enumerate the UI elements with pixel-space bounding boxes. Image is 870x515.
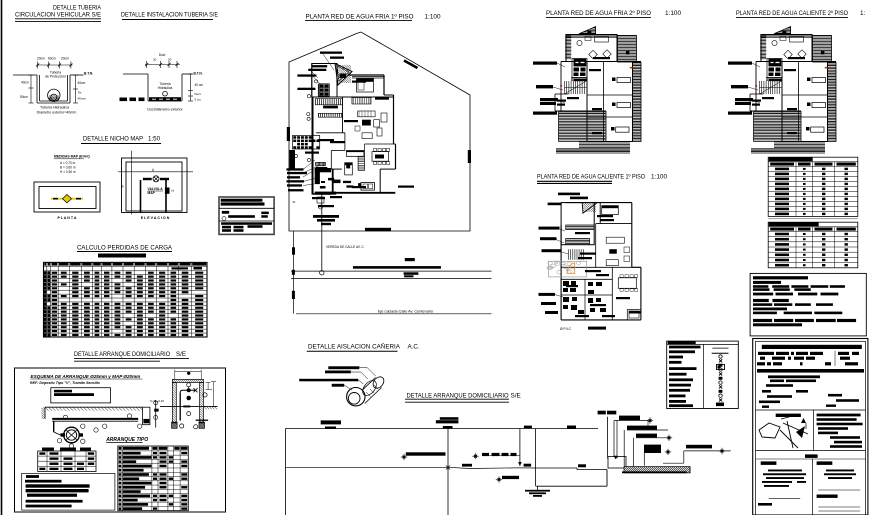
arranque tipo table right bbox=[118, 446, 189, 511]
esquema de arranque title bbox=[30, 374, 143, 385]
svg-text:20cm: 20cm bbox=[37, 57, 45, 61]
nicho MAP planta view rectangles bbox=[34, 182, 100, 212]
main plan callout circles left bbox=[294, 80, 317, 162]
bottom section top line bbox=[286, 428, 599, 430]
nicho MAP elevacion caption bbox=[141, 216, 170, 220]
plan 2 piso caliente - stairs bbox=[760, 81, 782, 94]
trench detail A dimension line with ticks bbox=[36, 62, 72, 69]
caliente 1 piso top labels bbox=[548, 193, 588, 206]
plan 2 piso fria - left stripe band bbox=[565, 35, 571, 59]
esquema valve box at right of pipe bbox=[143, 407, 150, 425]
bottom section survey stars and labels bbox=[401, 452, 519, 482]
svg-text:Duct: Duct bbox=[159, 53, 166, 57]
plan 2 piso caliente - roof triangle bbox=[773, 27, 792, 34]
main plan cell table mid-left bbox=[293, 135, 320, 149]
main plan label bars top area bbox=[297, 52, 344, 91]
svg-text:DETALLE TUBERIA: DETALLE TUBERIA bbox=[53, 5, 102, 12]
trench detail B labels bbox=[147, 72, 203, 112]
svg-text:Tuberia Hidráulica: Tuberia Hidráulica bbox=[40, 106, 69, 110]
svg-text:St: St bbox=[293, 200, 296, 204]
plan 2 piso fria - right side hatch band bbox=[633, 63, 642, 142]
gap row between right tables bbox=[768, 218, 858, 220]
trench detail B black duct fill at bottom bbox=[149, 97, 181, 101]
svg-text:Eje calzada Calle Av. Centenar: Eje calzada Calle Av. Centenario bbox=[378, 310, 433, 314]
svg-text:P L A N T A: P L A N T A bbox=[57, 216, 76, 220]
svg-text:DETALLE AISLACION CAÑERIA: DETALLE AISLACION CAÑERIA bbox=[308, 343, 401, 350]
plan 2 piso fria - red reference dots bbox=[560, 67, 634, 87]
svg-text:60cm: 60cm bbox=[48, 57, 56, 61]
plan 2 piso caliente - right side hatch band bbox=[828, 63, 837, 142]
caliente 1 piso bathroom fixtures bottom bbox=[563, 281, 606, 314]
small note table left of plan bbox=[219, 197, 274, 234]
svg-text:20: 20 bbox=[168, 58, 172, 62]
svg-text:1:100: 1:100 bbox=[651, 174, 667, 181]
esquema water meter circle assembly bbox=[54, 427, 83, 443]
title block map section frame bbox=[756, 410, 866, 451]
caliente 1 piso left labels bbox=[539, 227, 569, 314]
title block header black bar bbox=[762, 345, 862, 349]
trench detail B dimension labels bbox=[153, 53, 172, 62]
esquema vertical riser with circles bbox=[150, 399, 164, 428]
svg-text:A = 0,70 m: A = 0,70 m bbox=[60, 161, 76, 165]
title block lower section bbox=[756, 454, 866, 515]
plan 2 piso caliente - living room furniture bbox=[772, 37, 806, 59]
main plan wall hatch band top bbox=[352, 75, 384, 78]
svg-text:MAP: MAP bbox=[148, 191, 156, 195]
niche wall section right - hatched walls bbox=[172, 379, 205, 428]
street axis line and label bbox=[296, 310, 492, 314]
svg-text:VEREDA DE CALLE AV. C.: VEREDA DE CALLE AV. C. bbox=[326, 245, 365, 249]
svg-text:de Protección: de Protección bbox=[45, 75, 66, 79]
main plan sink counter striped bbox=[316, 162, 328, 168]
plan 2 piso fria - bottom garage hatch bbox=[559, 112, 606, 140]
plan 2 piso fria - stairs bbox=[565, 81, 587, 94]
svg-text:H = 0,50 m: H = 0,50 m bbox=[60, 170, 76, 174]
nicho MAP planta yellow meter symbol bbox=[51, 195, 83, 203]
plan 2 piso fria - left labels with leaders bbox=[533, 62, 565, 115]
trench detail A protection pipe circle bbox=[48, 89, 60, 101]
caliente 1 piso bottom label bbox=[560, 327, 606, 331]
title block outer frame bbox=[753, 339, 868, 515]
svg-text:S/E: S/E bbox=[511, 393, 521, 400]
svg-text:PLANTA RED DE AGUA CALIENTE 2º: PLANTA RED DE AGUA CALIENTE 2º PISO bbox=[736, 10, 848, 17]
arranque tipo caption bbox=[105, 437, 148, 443]
caliente 1 piso living furniture bbox=[606, 237, 629, 266]
trench detail A ground and trench walls bbox=[13, 75, 84, 103]
nicho MAP elevacion valve assembly bbox=[141, 176, 170, 213]
trench detail B dimension line with ticks bbox=[145, 61, 180, 68]
svg-text:1:100: 1:100 bbox=[425, 13, 441, 20]
bottom section label bars on top line bbox=[321, 411, 617, 468]
svg-text:DETALLE INSTALACION TUBERIA S/: DETALLE INSTALACION TUBERIA S/E bbox=[121, 12, 218, 19]
trench detail B ground and trench walls bbox=[123, 74, 193, 101]
bottom section lower pipe run bbox=[525, 470, 607, 497]
plan 2 piso caliente - small interior labels bbox=[752, 57, 805, 134]
caliente 1 piso orange door swing bbox=[567, 263, 575, 274]
nicho MAP planta caption bbox=[57, 216, 76, 220]
caliente 1 piso interior labels bbox=[566, 215, 630, 317]
nicho MAP elevacion axis lines bbox=[118, 151, 193, 215]
caliente 1 piso stone paving outside left bbox=[547, 261, 587, 277]
svg-text:5 cm: 5 cm bbox=[195, 98, 202, 102]
plan 2 piso fria - beds in bedrooms bbox=[611, 78, 631, 133]
bottom section vertical grid lines bbox=[286, 429, 536, 515]
bottom section small marks bbox=[446, 464, 472, 470]
plan 2 piso caliente - left stripe band bbox=[760, 35, 766, 59]
svg-text:Hidráulica: Hidráulica bbox=[158, 86, 173, 90]
svg-text:CALCULO PERDIDAS DE CARGA: CALCULO PERDIDAS DE CARGA bbox=[77, 245, 173, 252]
esquema ground hatch line bbox=[42, 407, 143, 419]
svg-text:Ø P.V.C.: Ø P.V.C. bbox=[560, 327, 572, 331]
plan left boundary tick below house bbox=[292, 200, 296, 255]
trench detail A right dimension line 40cm/40mm bbox=[73, 75, 86, 103]
title: DETALLE NICHO MAP 1:50 bbox=[81, 136, 161, 144]
plan 2 piso caliente - right terrace hatch top bbox=[813, 36, 832, 63]
title: CALCULO PERDIDAS DE CARGA bbox=[77, 245, 173, 258]
svg-text:B: B bbox=[121, 185, 123, 189]
plan 2 piso caliente - beds in bedrooms bbox=[806, 78, 826, 133]
svg-text:CIRCULACION VEHICULAR S/E: CIRCULACION VEHICULAR S/E bbox=[15, 12, 101, 19]
svg-text:REF: Deposito Tipo "V", Tramit: REF: Deposito Tipo "V", Tramite Sencillo bbox=[30, 381, 101, 385]
title block project description bars bbox=[759, 375, 859, 408]
trench detail B hydraulic pipe circle bbox=[163, 91, 168, 96]
niche dimension lines bbox=[175, 370, 216, 407]
main plan kitchen L-counter bbox=[345, 151, 364, 175]
caliente 1 piso bedroom bed top-right bbox=[602, 206, 619, 215]
boundary tick marks bbox=[287, 61, 471, 232]
esquema NF box bbox=[51, 388, 111, 403]
plan 2 piso caliente - left labels with leaders bbox=[728, 62, 760, 115]
svg-text:50cm: 50cm bbox=[20, 95, 28, 99]
esquema main pipe bbox=[52, 419, 138, 432]
plan 2 piso fria - living room furniture bbox=[577, 37, 611, 59]
svg-text:40cm: 40cm bbox=[21, 81, 29, 85]
plan 2 piso fria - roof triangle bbox=[578, 27, 597, 34]
main plan scattered labels inside bbox=[305, 81, 414, 208]
title: PLANTA RED DE AGUA CALIENTE 2 PISO 1:100 bbox=[736, 10, 866, 18]
caliente 1 piso kitchen hatched counters bbox=[566, 225, 595, 245]
main plan dining table with chairs bbox=[372, 148, 390, 164]
plan 2 piso fria - bottom strip hatch bbox=[556, 142, 630, 154]
niche inner pipe and valve bbox=[180, 383, 209, 429]
plan 2 piso caliente - bottom strip hatch bbox=[751, 142, 825, 154]
plan 2 piso fria - right terrace hatch top bbox=[618, 36, 637, 63]
svg-text:DETALLE NICHO MAP: DETALLE NICHO MAP bbox=[83, 136, 143, 143]
plan 2 piso caliente - bathroom block with fixtures bbox=[767, 59, 782, 78]
bottom section terrain line bbox=[286, 467, 608, 469]
bottom section right stepped service connection bbox=[608, 416, 731, 474]
title: DETALLE INSTALACION TUBERIA S/E bbox=[121, 12, 218, 20]
nicho MAP elevacion valvula MAP label bbox=[148, 187, 175, 195]
main plan upper furniture - bed room bbox=[357, 79, 374, 93]
aislacion leader lines bbox=[344, 368, 376, 391]
plan 2 piso caliente - top wall hatched band bbox=[761, 35, 812, 37]
svg-text:40mm: 40mm bbox=[78, 97, 87, 101]
street curb lines bbox=[291, 231, 492, 314]
plan 2 piso fria - small interior labels bbox=[557, 57, 610, 134]
aislacion label bars bbox=[299, 366, 359, 386]
svg-text:40 cm: 40 cm bbox=[195, 83, 204, 87]
svg-text:MEDIDAS MAP (E=int): MEDIDAS MAP (E=int) bbox=[54, 155, 90, 159]
svg-text:DETALLE ARRANQUE DOMICILIARIO: DETALLE ARRANQUE DOMICILIARIO bbox=[407, 393, 509, 400]
svg-text:Duct/diámetro exterior: Duct/diámetro exterior bbox=[147, 108, 183, 112]
main plan laundry fixtures bbox=[333, 180, 375, 191]
title: PLANTA RED DE AGUA FRIA 1 PISO 1:100 bbox=[305, 13, 441, 20]
svg-text:PLANTA RED DE AGUA CALIENTE 1º: PLANTA RED DE AGUA CALIENTE 1º PISO bbox=[537, 174, 645, 181]
trench detail A dimension labels 20cm 60cm 20cm bbox=[37, 57, 69, 61]
svg-text:ESQUEMA DE ARRANQUE Ø25mm y M: ESQUEMA DE ARRANQUE Ø25mm y MAP Ø20mm bbox=[31, 374, 141, 379]
plan 2 piso fria - top wall hatched band bbox=[566, 35, 617, 37]
svg-text:20: 20 bbox=[153, 58, 157, 62]
nicho MAP measures note bbox=[54, 155, 90, 175]
calculo perdidas table bbox=[44, 262, 208, 337]
legend box with symbols bbox=[667, 341, 739, 408]
legend symbol column bbox=[712, 348, 729, 406]
caliente 1 piso house walls bbox=[561, 203, 641, 320]
title block right notes bars bbox=[817, 414, 863, 448]
specifications text box right side bbox=[750, 273, 866, 336]
plan 2 piso fria - outer walls bbox=[555, 35, 641, 142]
right side table at y=157.2 bbox=[768, 157, 858, 216]
title: PLANTA RED DE AGUA FRIA 2 PISO 1:100 bbox=[546, 10, 681, 18]
title: PLANTA RED DE AGUA CALIENTE 1 PISO 1:100 bbox=[537, 174, 667, 184]
plan 2 piso caliente - bottom garage hatch bbox=[754, 112, 801, 140]
svg-text:A.C.: A.C. bbox=[408, 343, 420, 350]
caliente 1 piso stairs bbox=[569, 249, 584, 260]
plan 2 piso caliente - corridor dark band bbox=[766, 78, 782, 80]
svg-text:ARRANQUE TIPO: ARRANQUE TIPO bbox=[105, 437, 148, 443]
svg-text:PLANTA RED DE AGUA FRIA 2º PI: PLANTA RED DE AGUA FRIA 2º PISO bbox=[546, 10, 651, 17]
svg-text:1:50: 1:50 bbox=[148, 136, 161, 143]
street connection vertical pipe below plan bbox=[317, 194, 324, 275]
title: DETALLE ARRANQUE DOMICILIARIO S/E (bottom) bbox=[405, 393, 521, 403]
svg-text:DETALLE ARRANQUE DOMICILIARIO: DETALLE ARRANQUE DOMICILIARIO bbox=[74, 351, 170, 358]
street black bars labels bbox=[292, 258, 441, 299]
svg-text:S/E: S/E bbox=[176, 351, 186, 358]
earth/valve symbol below plan bbox=[313, 215, 365, 249]
svg-text:1:: 1: bbox=[860, 10, 866, 17]
right side table at y=222.2 bbox=[768, 222, 858, 268]
plan 2 piso caliente - outer walls bbox=[750, 35, 836, 142]
svg-text:Diametro exterior=40mm: Diametro exterior=40mm bbox=[37, 111, 77, 115]
main plan house walls bbox=[312, 64, 396, 195]
svg-text:B.T.N.: B.T.N. bbox=[194, 72, 203, 76]
main plan living furniture bbox=[355, 111, 387, 139]
title: DETALLE ARRANQUE DOMICILIARIO S/E (left) bbox=[74, 351, 189, 361]
left small table under esquema bbox=[38, 448, 96, 472]
svg-text:PLANTA RED DE AGUA FRIA 1º PI: PLANTA RED DE AGUA FRIA 1º PISO bbox=[306, 13, 414, 20]
svg-text:B = 0,60 m: B = 0,60 m bbox=[60, 166, 76, 170]
svg-text:S.I.B.+0.30: S.I.B.+0.30 bbox=[150, 399, 164, 403]
plan 2 piso caliente - red reference dots bbox=[755, 67, 829, 87]
main plan bathroom black poche mass bbox=[315, 168, 337, 195]
sheet left border line bbox=[1, 0, 3, 515]
arranque domiciliario frame box bbox=[15, 368, 226, 512]
plan 2 piso fria - corridor dark band bbox=[571, 78, 587, 80]
title block info rows bbox=[757, 351, 864, 373]
svg-text:1:100: 1:100 bbox=[665, 10, 681, 17]
main plan leader lines bbox=[303, 53, 334, 186]
niche ground line segment bbox=[160, 406, 218, 410]
plan 2 piso fria - bathroom block with fixtures bbox=[572, 59, 587, 78]
main plan stair strip to 2nd floor bbox=[358, 156, 364, 170]
main plan label text bars left margin bbox=[287, 168, 308, 191]
caliente 1 piso tank room bottom right bbox=[629, 311, 641, 318]
property boundary polygon main plan bbox=[289, 32, 470, 231]
esquema callout circles along pipe bbox=[57, 414, 142, 448]
svg-text:B.T.N.: B.T.N. bbox=[84, 72, 93, 76]
aislacion pipe isometric bbox=[347, 375, 386, 406]
trench detail A labels bbox=[37, 71, 94, 115]
svg-text:Duct: Duct bbox=[195, 92, 201, 96]
main plan stair bands bbox=[315, 99, 342, 118]
main plan closet grid upper-left bbox=[318, 84, 329, 97]
main plan black bar left wall bbox=[292, 153, 295, 166]
legend notes box bottom-left bbox=[22, 473, 115, 510]
trench detail B dashed duct bank at left bbox=[120, 98, 145, 102]
title: DETALLE TUBERIA CIRCULACION VEHICULAR S/E bbox=[15, 5, 102, 22]
title block location map bbox=[759, 414, 808, 448]
caliente 1 piso dining table bbox=[618, 275, 637, 292]
nicho MAP elevacion rectangles bbox=[122, 158, 188, 213]
trench detail A left dimension line 40cm/50cm bbox=[20, 75, 34, 103]
svg-text:40cm: 40cm bbox=[78, 81, 86, 85]
svg-text:E L E V A C I O N: E L E V A C I O N bbox=[141, 216, 170, 220]
svg-text:20cm: 20cm bbox=[61, 57, 69, 61]
title: DETALLE AISLACION CANERIA A.C. bbox=[307, 343, 420, 351]
